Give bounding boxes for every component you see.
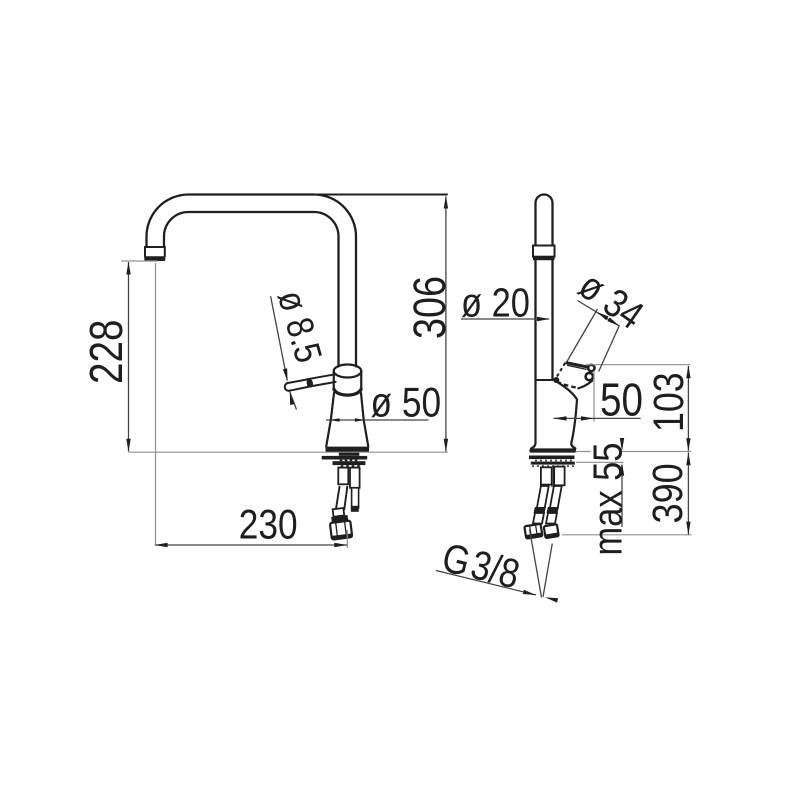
svg-text:50: 50 — [600, 374, 643, 425]
svg-text:ø 20: ø 20 — [461, 281, 530, 326]
svg-text:max 55: max 55 — [586, 443, 631, 556]
svg-text:228: 228 — [81, 320, 132, 384]
svg-text:306: 306 — [404, 276, 455, 339]
svg-text:390: 390 — [644, 463, 692, 523]
svg-text:103: 103 — [645, 372, 693, 432]
svg-text:230: 230 — [239, 501, 298, 548]
svg-text:ø 50: ø 50 — [371, 380, 442, 427]
